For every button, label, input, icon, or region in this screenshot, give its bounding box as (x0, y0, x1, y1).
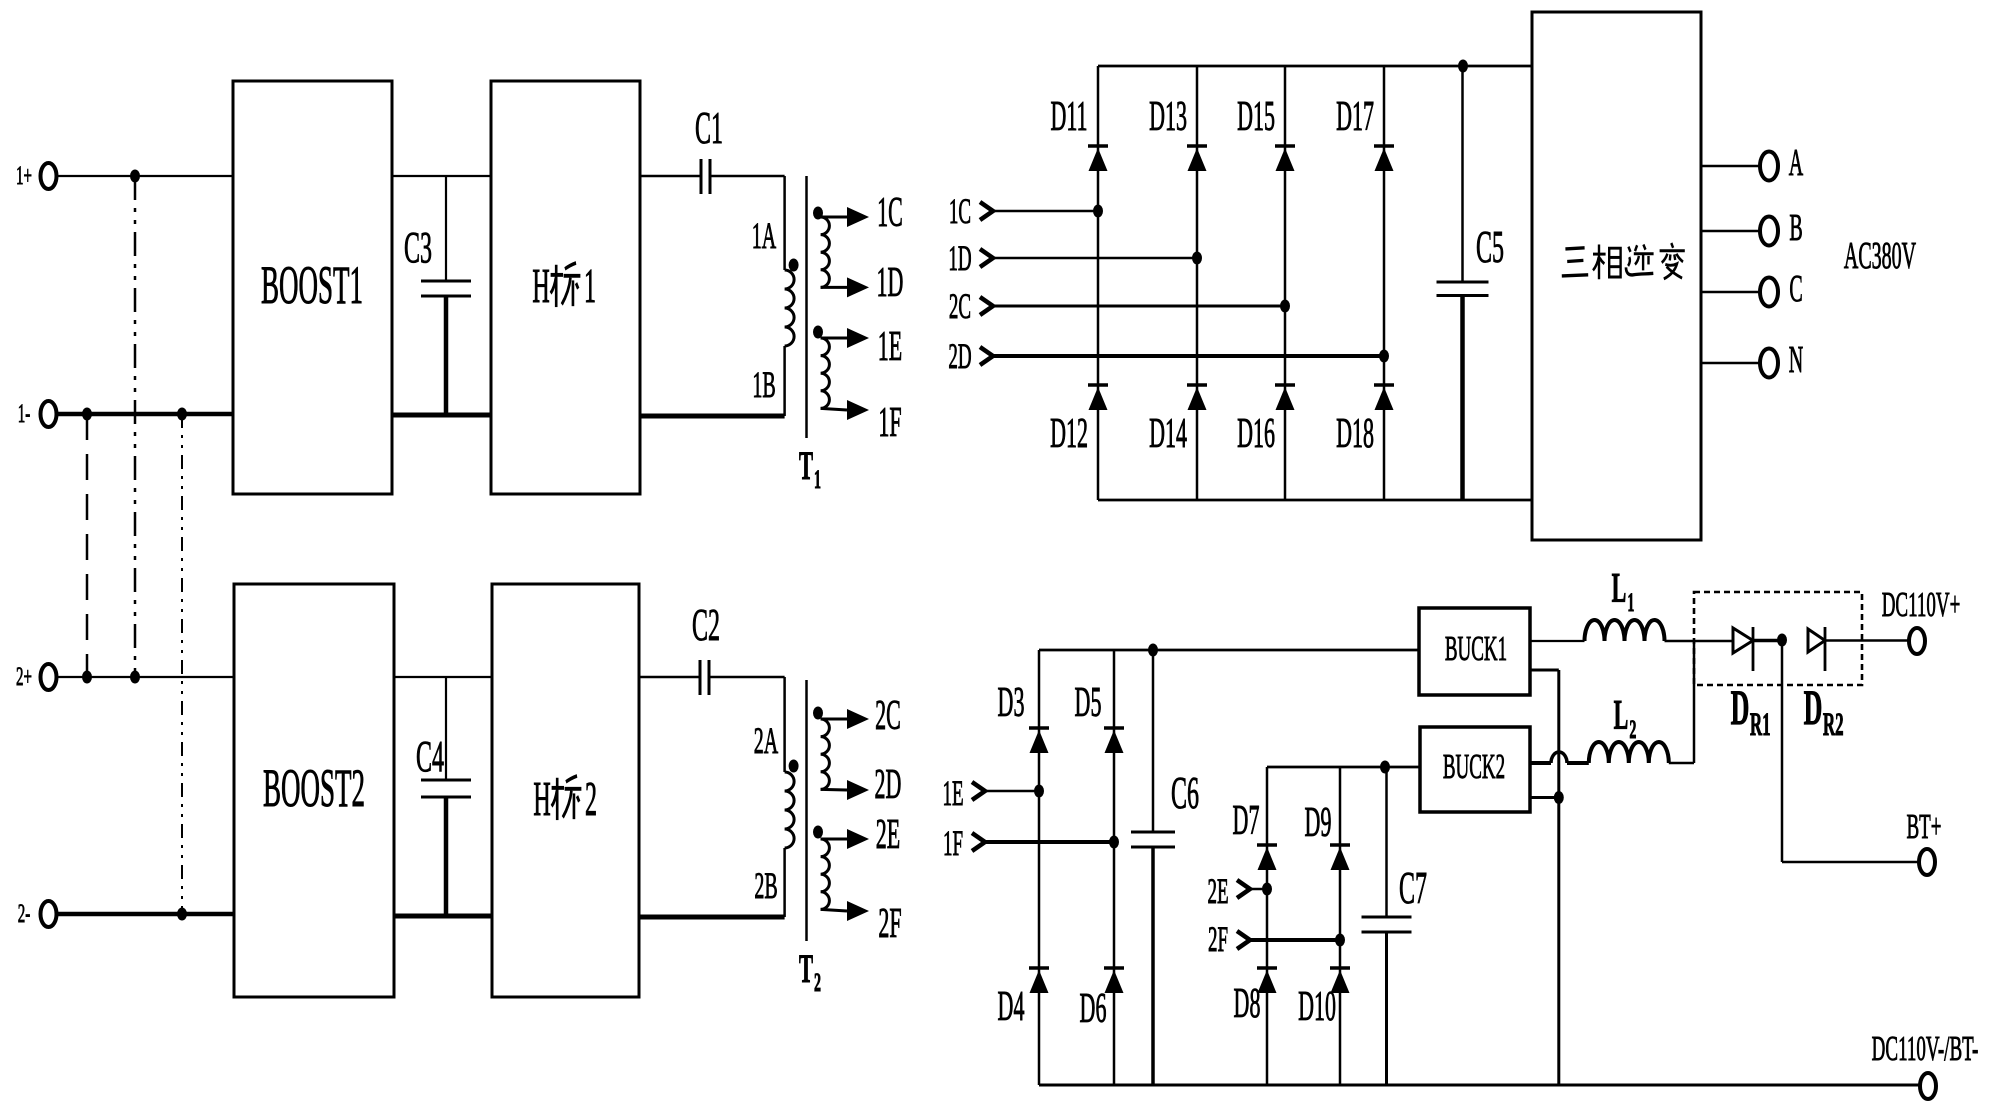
svg-text:D12: D12 (1050, 411, 1088, 457)
svg-text:2E: 2E (1207, 872, 1228, 912)
svg-text:BOOST2: BOOST2 (263, 759, 365, 818)
svg-text:2: 2 (814, 967, 821, 997)
svg-text:D16: D16 (1237, 411, 1275, 457)
svg-text:1: 1 (584, 260, 596, 313)
svg-text:2E: 2E (876, 812, 900, 858)
svg-text:C5: C5 (1476, 222, 1504, 272)
svg-text:1: 1 (1627, 587, 1634, 617)
svg-text:2F: 2F (1208, 920, 1228, 960)
svg-text:1B: 1B (752, 365, 775, 406)
svg-text:DC110V-/BT-: DC110V-/BT- (1872, 1030, 1979, 1069)
svg-text:R1: R1 (1750, 706, 1771, 742)
svg-text:D5: D5 (1075, 680, 1102, 726)
svg-text:2C: 2C (875, 693, 901, 739)
svg-text:1+: 1+ (16, 161, 32, 190)
svg-text:1F: 1F (943, 824, 963, 864)
svg-text:R2: R2 (1823, 706, 1844, 742)
svg-text:D9: D9 (1305, 800, 1332, 846)
svg-text:2C: 2C (949, 287, 971, 327)
svg-text:2F: 2F (878, 901, 901, 947)
svg-text:D11: D11 (1050, 94, 1087, 140)
svg-text:D4: D4 (998, 984, 1025, 1030)
svg-text:AC380V: AC380V (1844, 234, 1916, 277)
svg-text:L: L (1612, 566, 1627, 612)
svg-text:D7: D7 (1233, 798, 1260, 844)
svg-text:1: 1 (814, 464, 821, 494)
svg-text:BUCK1: BUCK1 (1445, 630, 1507, 669)
svg-text:D10: D10 (1298, 984, 1336, 1030)
svg-text:N: N (1789, 338, 1803, 381)
svg-text:2: 2 (585, 773, 597, 826)
svg-text:D: D (1804, 680, 1823, 735)
svg-text:1D: 1D (948, 239, 971, 279)
svg-text:B: B (1789, 206, 1802, 249)
svg-text:DC110V+: DC110V+ (1882, 586, 1961, 625)
svg-text:D14: D14 (1149, 411, 1187, 457)
svg-text:H: H (533, 773, 550, 826)
svg-text:C1: C1 (695, 103, 723, 153)
svg-text:BUCK2: BUCK2 (1443, 748, 1505, 787)
svg-text:L: L (1614, 693, 1629, 739)
svg-text:A: A (1789, 141, 1803, 184)
svg-text:1C: 1C (949, 192, 971, 232)
svg-text:T: T (799, 947, 813, 991)
svg-text:1E: 1E (942, 774, 963, 814)
svg-text:C: C (1789, 267, 1802, 310)
svg-text:2D: 2D (875, 762, 902, 808)
svg-text:1C: 1C (877, 190, 903, 236)
svg-text:D17: D17 (1336, 94, 1374, 140)
svg-text:2A: 2A (754, 721, 779, 762)
svg-text:D: D (1731, 680, 1750, 735)
svg-text:1D: 1D (877, 260, 904, 306)
svg-text:C4: C4 (416, 731, 444, 781)
svg-text:BT+: BT+ (1907, 808, 1942, 847)
svg-text:D8: D8 (1234, 981, 1261, 1027)
svg-text:1-: 1- (18, 399, 30, 428)
svg-text:2+: 2+ (16, 662, 32, 691)
svg-text:C3: C3 (404, 222, 432, 272)
svg-text:D6: D6 (1080, 986, 1107, 1032)
svg-text:2-: 2- (18, 899, 30, 928)
svg-text:C7: C7 (1399, 863, 1427, 913)
svg-text:1F: 1F (878, 400, 901, 446)
svg-text:2: 2 (1629, 714, 1636, 744)
svg-text:D3: D3 (998, 680, 1025, 726)
svg-text:T: T (799, 444, 813, 488)
svg-text:BOOST1: BOOST1 (261, 256, 363, 315)
svg-text:D13: D13 (1149, 94, 1187, 140)
svg-text:D15: D15 (1237, 94, 1275, 140)
svg-text:H: H (532, 260, 549, 313)
svg-text:2D: 2D (948, 337, 971, 377)
svg-text:C6: C6 (1171, 768, 1199, 818)
svg-text:D18: D18 (1336, 411, 1374, 457)
svg-text:2B: 2B (754, 866, 777, 907)
svg-text:C2: C2 (692, 600, 720, 650)
svg-text:1E: 1E (878, 324, 902, 370)
svg-text:1A: 1A (752, 216, 777, 257)
